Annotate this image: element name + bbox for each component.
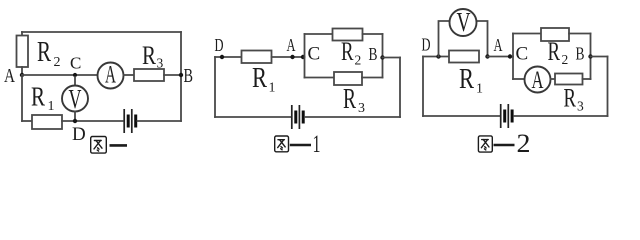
svg-text:1: 1 (269, 81, 276, 96)
svg-text:R: R (341, 37, 354, 66)
svg-text:1: 1 (313, 131, 321, 158)
svg-text:3: 3 (358, 101, 365, 116)
svg-text:D: D (215, 35, 224, 55)
wire: resistor R3 to node B (164, 74, 181, 76)
wire: voltmeter left lead (439, 21, 451, 57)
svg-text:R: R (37, 37, 51, 68)
svg-text:C: C (70, 54, 81, 73)
svg-text:2: 2 (562, 52, 569, 67)
wire: left vertical of parallel loop (512, 34, 514, 80)
node A (junction dot) (20, 73, 24, 77)
voltmeter V (circuit 1) (62, 84, 88, 114)
resistor R1 (horizontal box) (32, 115, 62, 129)
svg-text:R: R (31, 82, 45, 112)
wire: left corner to resistor R1 (423, 56, 449, 58)
svg-text:2: 2 (355, 53, 362, 68)
label R3 value (142, 41, 164, 71)
label R2 value (341, 37, 361, 68)
node C (junction dot) (301, 55, 305, 59)
svg-text:V: V (69, 84, 82, 114)
wire: bottom left segment to resistor R1 (22, 120, 32, 122)
wire: right side of circuit 1 (180, 32, 182, 121)
node B (junction dot) (588, 54, 592, 58)
wire: loop top left segment (305, 33, 333, 35)
wire: battery to bottom right corner (514, 115, 608, 117)
svg-text:A: A (4, 65, 15, 87)
svg-text:2: 2 (517, 129, 531, 158)
resistor R2 (horizontal box, top branch) (541, 28, 569, 41)
wire: right vertical of parallel loop (590, 34, 592, 80)
resistor R1 (horizontal box) (449, 51, 479, 63)
wire: lead from R2 to node A (21, 67, 23, 75)
svg-text:R: R (459, 64, 474, 95)
wire: ammeter to resistor R3 (551, 78, 556, 80)
resistor R3 (horizontal box, bottom branch) (555, 74, 583, 85)
label R3 value (343, 84, 365, 116)
label R2 value (548, 37, 569, 67)
voltmeter V (circuit 3) (450, 7, 477, 37)
label R3 value (564, 84, 585, 114)
ammeter A (circuit 1) (98, 62, 124, 89)
svg-text:D: D (72, 124, 86, 145)
resistor R3 (horizontal box, bottom branch) (334, 72, 362, 85)
label R1 value (252, 63, 276, 96)
svg-text:A: A (287, 35, 296, 55)
node C (junction dot) (508, 54, 512, 58)
wire: ammeter to resistor R3 (124, 74, 135, 76)
label R1 value (459, 64, 483, 97)
caption 图—1 (figure-1) (275, 131, 321, 158)
svg-text:2: 2 (54, 55, 61, 70)
wire: left side of circuit 1 below node A (21, 75, 23, 121)
wire: right side of circuit 2 (399, 58, 401, 118)
wire: top side of circuit 1 (22, 31, 181, 33)
svg-text:1: 1 (476, 82, 483, 97)
wire: battery to bottom right corner (305, 116, 400, 118)
node D (junction dot) (436, 54, 440, 58)
wire: bottom left segment to battery (215, 116, 291, 118)
svg-text:3: 3 (577, 99, 584, 114)
wire: lead from top wire to resistor R2 (21, 32, 23, 36)
wire: loop bottom left segment (305, 77, 335, 79)
wire: lead voltmeter down to node D (74, 112, 76, 122)
wire: loop top right segment (569, 33, 591, 35)
label R2 value (37, 37, 61, 70)
svg-text:R: R (252, 63, 267, 94)
label R1 value (31, 82, 55, 115)
caption 图一 (figure one) (91, 137, 127, 154)
wire: right side of circuit 3 (607, 57, 609, 117)
node D (junction dot) (220, 55, 224, 59)
svg-text:A: A (105, 62, 116, 89)
resistor R1 (horizontal box) (242, 51, 272, 64)
battery (circuit 2) (292, 105, 303, 129)
battery (circuit 1) (124, 109, 136, 133)
svg-text:R: R (564, 84, 577, 113)
resistor R2 (horizontal box, top branch) (333, 29, 363, 41)
wire: left vertical of parallel loop (304, 34, 306, 78)
wire: lead node C down to voltmeter (74, 77, 76, 86)
wire: battery to bottom right corner (138, 120, 182, 122)
battery (circuit 3) (501, 104, 512, 128)
wire: right vertical of parallel loop (382, 34, 384, 78)
svg-text:A: A (494, 35, 503, 55)
resistor R2 (vertical box) (17, 36, 29, 68)
wire: node D to resistor R1 (215, 56, 242, 58)
svg-text:B: B (369, 44, 378, 64)
wire: loop top left segment (513, 33, 541, 35)
ammeter A (circuit 3) (525, 67, 551, 95)
wire: resistor R1 to node C (272, 56, 305, 58)
svg-text:D: D (422, 35, 431, 55)
wire: node A to node C (488, 56, 514, 58)
wire: left side of circuit 3 (422, 57, 424, 117)
node A (junction dot) (290, 55, 294, 59)
wire: resistor R1 to battery (through node D) (62, 120, 123, 122)
node D (junction dot) (73, 119, 77, 123)
svg-text:1: 1 (48, 99, 55, 114)
caption 图—2 (figure-2) (478, 129, 530, 158)
wire: loop bottom right segment (362, 77, 383, 79)
node B (junction dot) (380, 55, 384, 59)
svg-text:A: A (532, 67, 544, 94)
wire: node B to right side (591, 56, 608, 58)
svg-text:B: B (576, 44, 585, 64)
wire: left side of circuit 2 (214, 57, 216, 117)
node A (junction dot) (485, 54, 489, 58)
node C (junction dot) (73, 73, 77, 77)
svg-text:B: B (184, 65, 194, 87)
wire: loop top right segment (363, 33, 383, 35)
resistor R3 (horizontal box) (134, 69, 164, 81)
svg-text:V: V (457, 7, 471, 37)
svg-text:R: R (343, 84, 356, 115)
svg-text:R: R (142, 41, 157, 70)
svg-text:3: 3 (157, 56, 164, 71)
svg-text:C: C (516, 44, 529, 65)
wire: resistor R3 to loop right vertical (583, 78, 591, 80)
node B (junction dot) (179, 73, 183, 77)
wire: loop bottom lead to ammeter (513, 78, 525, 80)
wire: bottom left segment to battery (423, 115, 499, 117)
wire: node A to ammeter (through node C) (22, 74, 98, 76)
svg-text:C: C (308, 44, 321, 65)
wire: voltmeter right lead (476, 21, 488, 57)
wire: node B to right side (383, 57, 401, 59)
svg-text:R: R (548, 37, 561, 66)
